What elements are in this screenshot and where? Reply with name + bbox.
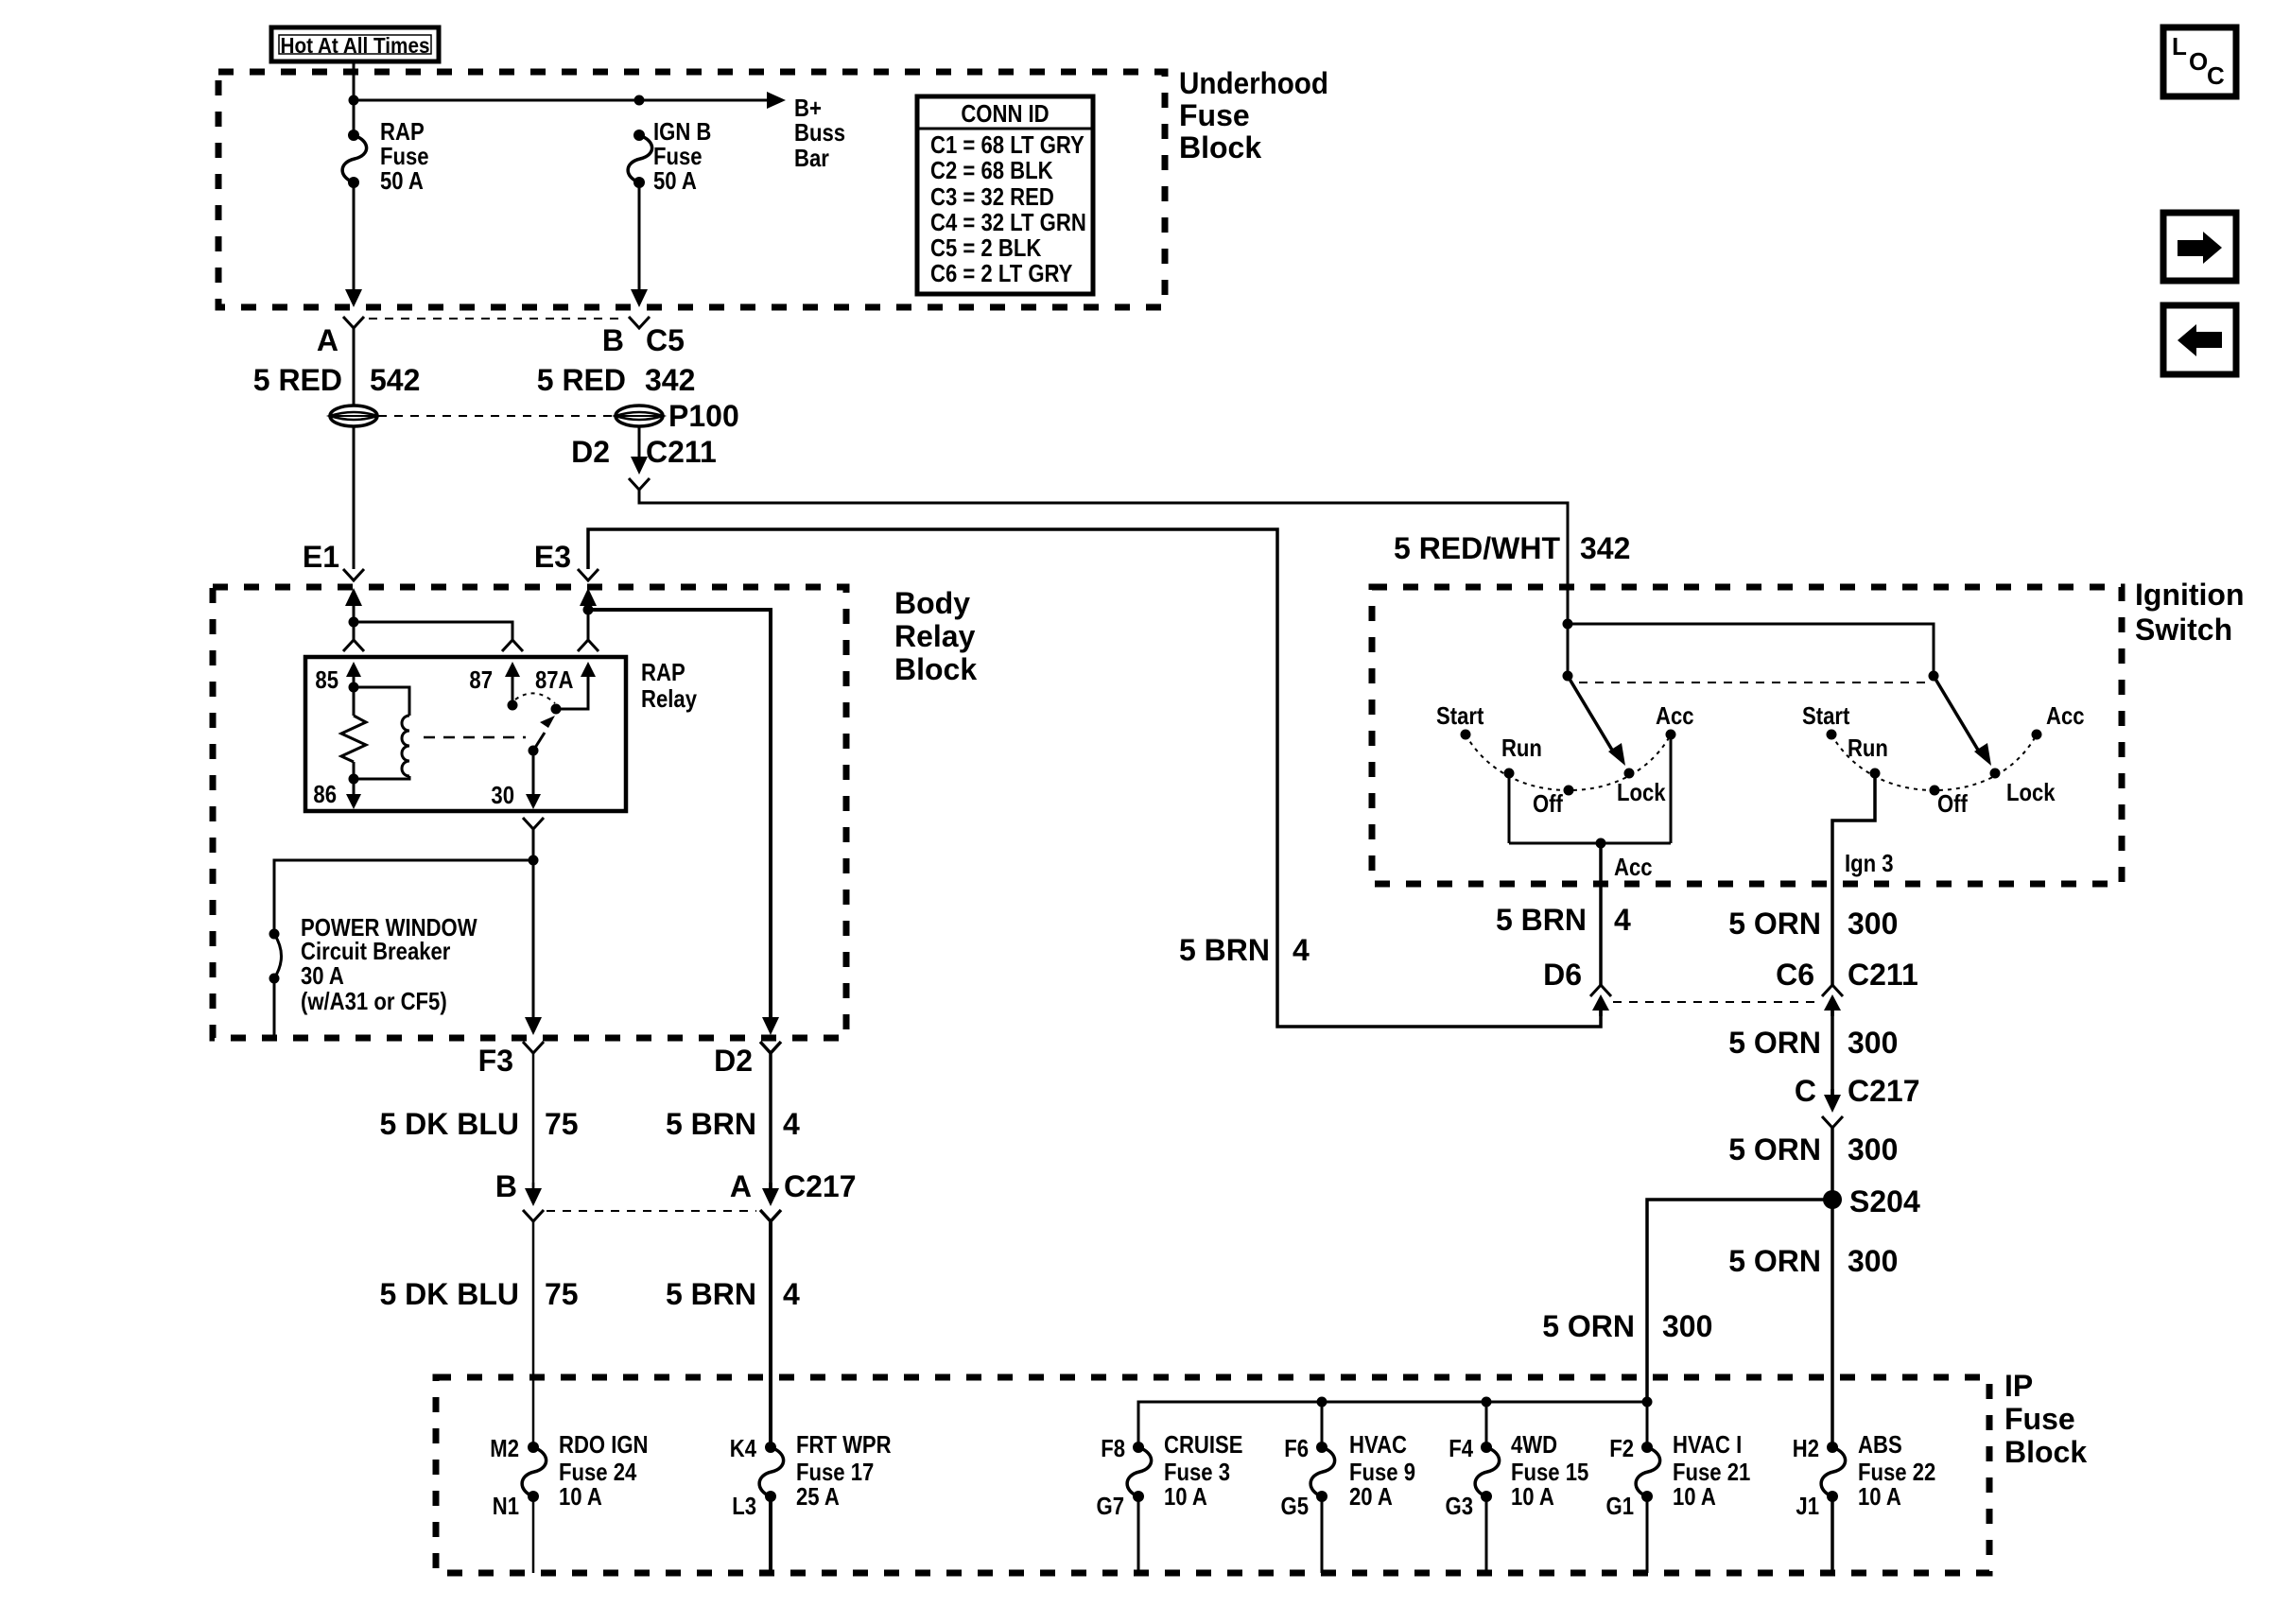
label pin B [602,323,624,357]
in-line connector C211 pin C6 (chevron + arrow up) [1822,985,1843,1016]
wire ABS fuse to block bottom [1831,1496,1834,1573]
wire left Acc to collector [1670,734,1673,843]
node bus at HVAC I fuse [1642,1397,1653,1408]
svg-text:Off: Off [1533,789,1563,818]
arrow to B+ buss bar [767,92,786,109]
label S204 [1849,1184,1920,1218]
arrow relay pin 30 [526,788,541,809]
label F4 [1449,1434,1473,1462]
svg-text:C217: C217 [784,1169,857,1203]
svg-text:Run: Run [1501,734,1542,762]
label G1 [1606,1492,1635,1520]
svg-text:87A: 87A [535,665,574,694]
wire CRUISE fuse to block bottom [1137,1496,1140,1573]
junction node at (676,106) [634,95,645,106]
wire FRT WPR fuse to block bottom [769,1496,772,1573]
arrow E3 into block [580,588,597,612]
svg-text:85: 85 [315,665,338,694]
svg-text:Acc: Acc [2046,701,2085,730]
block label 'IP Fuse Block' [2004,1369,2087,1469]
connector pin A chevron [343,317,364,328]
label ABS Fuse 22 10 A [1858,1430,1935,1511]
label N1 [493,1492,519,1520]
dashed arc 87 to 87A [515,693,555,703]
svg-text:5 ORN: 5 ORN [1728,1132,1821,1166]
svg-text:75: 75 [545,1277,579,1311]
svg-text:30 A: 30 A [301,961,344,990]
svg-text:N1: N1 [493,1492,519,1520]
label P100 [668,399,739,433]
node relay common 30 [529,746,539,756]
svg-text:4: 4 [1293,933,1310,967]
wire collector [1509,842,1671,845]
svg-text:5 RED/WHT: 5 RED/WHT [1394,531,1560,565]
label relay pin 86 [313,780,337,808]
in-line connector C211 pin D6 (chevron + arrow up) [1590,985,1611,1016]
coil in relay [354,687,409,779]
wire B grommet to C211 connector [638,425,641,458]
svg-text:FRT WPR: FRT WPR [796,1430,892,1459]
block label 'Body Relay Block' [894,586,977,686]
label E3 [534,540,571,574]
node relay coil top [349,682,359,693]
svg-text:Hot At All Times: Hot At All Times [281,33,430,58]
wire B+ feed horizontal [354,99,769,102]
node relay pin 87A contact [551,704,562,715]
node bus at HVAC fuse [1317,1397,1327,1408]
svg-text:D2: D2 [571,435,610,469]
wire label 5 BRN 4 at Acc [1496,903,1631,937]
svg-text:342: 342 [1580,531,1630,565]
chevron below body block F3 [523,1042,544,1053]
arrow out of underhood block at A [345,284,362,307]
svg-text:20 A: 20 A [1349,1482,1393,1511]
label connector C211 at C6 [1848,958,1918,992]
wire label 5 DK BLU 75 lower [379,1277,578,1311]
svg-text:IP: IP [2004,1369,2033,1403]
connector C217 mating dashed line [547,1210,756,1212]
right switch lever [1934,676,1991,766]
node relay pin 87 [508,700,518,711]
right switch position arc [1831,734,2037,790]
svg-text:S204: S204 [1849,1184,1920,1218]
svg-text:Block: Block [2004,1435,2087,1469]
wire label 5 BRN 4 lower [666,1277,800,1311]
svg-text:4: 4 [1614,903,1631,937]
svg-text:A: A [317,323,338,357]
wire E3 junction to relay pin 87A [587,610,590,640]
svg-text:Lock: Lock [1617,778,1666,806]
block label 'Ignition Switch' [2135,578,2245,647]
label M2 [490,1434,519,1462]
arrow E1 into block [345,588,362,612]
connector E3 chevron [578,569,599,580]
svg-text:5 BRN: 5 BRN [666,1277,756,1311]
right switch position Acc [2032,701,2085,740]
label RDO IGN Fuse 24 10 A [559,1430,649,1511]
node relay coil bottom [349,774,359,785]
svg-text:F2: F2 [1609,1434,1634,1462]
svg-text:4WD: 4WD [1511,1430,1557,1459]
label CRUISE Fuse 3 10 A [1164,1430,1243,1511]
grommet P100 left [330,406,377,426]
svg-text:Block: Block [894,652,977,686]
label pin C6 [1776,958,1814,992]
svg-text:Ign 3: Ign 3 [1845,849,1894,877]
ignition switch dashed border [1372,587,2122,884]
svg-text:86: 86 [313,780,337,808]
left switch lever [1568,676,1625,766]
wire A to grommet [353,328,356,406]
svg-text:RDO IGN: RDO IGN [559,1430,649,1459]
node left wiper pivot [1563,671,1573,682]
svg-text:50 A: 50 A [653,166,697,195]
label RAP Relay [641,658,697,713]
svg-text:CRUISE: CRUISE [1164,1430,1243,1459]
label pin A [317,323,338,357]
svg-text:5 ORN: 5 ORN [1728,1026,1821,1060]
node ignition feed split [1563,619,1573,630]
wire E3 external to D6 link [588,529,1601,1027]
svg-text:342: 342 [645,363,695,397]
svg-text:Relay: Relay [641,684,697,713]
wire A to FRT WPR fuse [769,1221,772,1447]
svg-text:C: C [1795,1074,1816,1108]
svg-text:G7: G7 [1097,1492,1125,1520]
label pin A at C217 [730,1169,752,1203]
svg-text:50 A: 50 A [380,166,424,195]
svg-text:300: 300 [1848,1244,1898,1278]
label HVAC I Fuse 21 10 A [1673,1430,1750,1511]
wire IGN B fuse to block edge [638,182,641,289]
svg-text:P100: P100 [668,399,739,433]
arrow relay pin 86 [346,788,361,809]
svg-text:G5: G5 [1281,1492,1310,1520]
wire E3 pin to junction [587,610,590,612]
label relay pin 87A [535,665,574,694]
svg-text:10 A: 10 A [1673,1482,1716,1511]
svg-text:C6 = 2 LT GRY: C6 = 2 LT GRY [930,259,1072,287]
left switch position Acc [1656,701,1694,740]
node bus at 4WD fuse [1482,1397,1492,1408]
label F3 [478,1044,513,1078]
relay pin 85 arrow [346,662,361,682]
svg-text:Off: Off [1937,789,1968,818]
label F6 [1284,1434,1309,1462]
svg-text:5 DK BLU: 5 DK BLU [379,1107,519,1141]
svg-text:RAP: RAP [641,658,685,686]
relay pin 87 arrow [505,662,520,682]
svg-text:H2: H2 [1793,1434,1819,1462]
wire E1 junction to relay pin 85 [353,622,356,640]
block label 'Underhood Fuse Block' [1179,66,1328,164]
label K4 [730,1434,757,1462]
left switch position arc [1466,734,1671,790]
svg-text:C: C [2207,61,2225,90]
svg-text:5 DK BLU: 5 DK BLU [379,1277,519,1311]
wire label 5 BRN 4 on link wire [1179,933,1310,967]
fuse RAP Fuse 50 A [342,130,367,188]
wire D2 to ignition switch feed [639,490,1568,590]
label D2 exit [714,1044,753,1078]
fuse HVAC I Fuse 21 10 A [1636,1442,1660,1502]
svg-text:Underhood: Underhood [1179,66,1328,100]
svg-text:A: A [730,1169,752,1203]
left switch position Start [1436,701,1484,740]
in-line connector C217 pin C (arrow + chevron) [1822,1089,1843,1128]
svg-text:75: 75 [545,1107,579,1141]
svg-text:F8: F8 [1101,1434,1125,1462]
svg-text:D2: D2 [714,1044,753,1078]
label relay pin 87 [469,665,493,694]
wire pin 30 [532,751,535,794]
label G7 [1097,1492,1125,1520]
svg-text:Buss: Buss [794,118,845,147]
label F8 [1101,1434,1125,1462]
right switch position Off [1930,786,1969,819]
relay pin 87A arrow [581,662,596,682]
svg-text:K4: K4 [730,1434,757,1462]
svg-text:87: 87 [469,665,493,694]
relay pin 87 chevron [502,640,523,651]
previous page arrow icon [2163,305,2236,374]
svg-text:E3: E3 [534,540,571,574]
resistor in relay [341,687,366,779]
label F2 [1609,1434,1634,1462]
label L3 [732,1492,756,1520]
wire label 5 ORN 300 above C217 [1728,1026,1898,1060]
relay switch lever [533,716,555,751]
label J1 [1796,1492,1819,1520]
dashed wiper link [1579,682,1925,683]
label RAP Fuse 50 A [380,117,429,195]
connector E1 chevron [343,569,364,580]
wire branch to circuit breaker [274,860,533,929]
svg-text:C1 = 68 LT GRY: C1 = 68 LT GRY [930,130,1084,159]
wire left Run to collector [1508,773,1511,843]
svg-text:F3: F3 [478,1044,513,1078]
next page arrow icon [2163,213,2236,281]
connector C211 lower mating dashed line [1613,1001,1819,1003]
svg-text:10 A: 10 A [1511,1482,1554,1511]
wire RAP fuse to block edge [353,182,356,289]
svg-text:M2: M2 [490,1434,519,1462]
label pin D6 [1543,958,1582,992]
wire E1 pin to junction [353,612,356,622]
label pin B at C217 [495,1169,517,1203]
wire HVAC I fuse to block bottom [1646,1496,1649,1573]
underhood fuse block dashed border [218,72,1165,307]
relay pin 87A chevron [578,640,599,651]
svg-text:300: 300 [1848,1132,1898,1166]
arrow out of body block at D2 [762,1011,779,1035]
node E1 branch [349,617,359,628]
svg-text:30: 30 [491,781,514,809]
grommet dashed link [378,415,615,417]
svg-text:5 RED: 5 RED [537,363,626,397]
svg-text:ABS: ABS [1858,1430,1902,1459]
svg-text:Acc: Acc [1614,853,1653,881]
wire RDO IGN fuse to block bottom [532,1496,535,1573]
svg-text:C6: C6 [1776,958,1814,992]
label Acc output [1614,853,1653,881]
label connector C217 right [1848,1074,1920,1108]
svg-text:5 ORN: 5 ORN [1728,1244,1821,1278]
fuse IGN B Fuse 50 A [628,130,652,188]
svg-text:Ignition: Ignition [2135,578,2245,612]
grommet P100 right [616,406,663,426]
svg-text:D6: D6 [1543,958,1582,992]
svg-text:C5 = 2 BLK: C5 = 2 BLK [930,233,1041,262]
junction node at (374,106) [349,95,359,106]
svg-text:F6: F6 [1284,1434,1309,1462]
svg-text:(w/A31 or CF5): (w/A31 or CF5) [301,987,447,1015]
svg-text:C211: C211 [646,435,717,469]
svg-text:300: 300 [1848,907,1898,941]
fuse 4WD Fuse 15 10 A [1475,1442,1500,1502]
svg-text:Start: Start [1436,701,1484,730]
wire Acc to D6 [1599,887,1603,987]
svg-text:25 A: 25 A [796,1482,840,1511]
IP bus wire [1138,1402,1647,1447]
svg-text:300: 300 [1662,1309,1712,1343]
svg-text:J1: J1 [1796,1492,1819,1520]
wire breaker to block edge [273,978,276,1035]
label G3 [1446,1492,1474,1520]
right switch position Lock [1990,769,2056,807]
fuse RDO IGN Fuse 24 10 A [522,1442,547,1502]
fuse ABS Fuse 22 10 A [1821,1442,1846,1502]
svg-text:HVAC I: HVAC I [1673,1430,1742,1459]
CONN ID table [917,96,1093,294]
label pin C5 [646,323,685,357]
wire pin 86 [353,779,356,794]
wire bus drop to F2 [1646,1402,1649,1447]
label pin C at C217 [1795,1074,1816,1108]
svg-text:5 BRN: 5 BRN [1496,903,1587,937]
wire HVAC fuse to block bottom [1321,1496,1324,1573]
svg-text:B: B [495,1169,517,1203]
label Ign 3 output [1845,849,1894,877]
wire 87A contact to pin [556,677,588,709]
svg-text:Fuse: Fuse [2004,1402,2075,1436]
label pin D2 [571,435,610,469]
wire F3 to C217 [532,1053,535,1189]
wire label 5 RED 542 [253,363,421,397]
wire label 5 RED 342 [537,363,696,397]
label connector C217 [784,1169,857,1203]
svg-text:C3 = 32 RED: C3 = 32 RED [930,182,1054,211]
wire feed to right wiper [1568,624,1934,676]
wire C6 to C217 [1831,1011,1834,1098]
svg-text:5 BRN: 5 BRN [666,1107,756,1141]
wire bus drop to F6 [1321,1402,1324,1447]
svg-text:Switch: Switch [2135,613,2232,647]
label HVAC Fuse 9 20 A [1349,1430,1415,1511]
connector pin B chevron [629,317,650,328]
svg-text:G3: G3 [1446,1492,1474,1520]
wire B to RDO IGN fuse [532,1221,535,1447]
label connector C211 [646,435,717,469]
svg-text:C217: C217 [1848,1074,1920,1108]
chevron below body block D2 [760,1042,781,1053]
wire bus drop to F4 [1485,1402,1488,1447]
arrow out of body block at F3 [525,1011,542,1035]
node E3 branch [583,605,594,615]
wire branch to D2 exit [588,610,771,1020]
svg-text:Relay: Relay [894,619,976,653]
svg-text:L: L [2172,32,2187,60]
svg-text:C211: C211 [1848,958,1918,992]
wire label 5 DK BLU 75 [379,1107,578,1141]
svg-text:O: O [2189,47,2208,76]
wire right Run jog to Ign 3 output [1832,773,1875,887]
label B+ Buss Bar [794,94,845,172]
fuse FRT WPR Fuse 17 25 A [759,1442,784,1502]
wire label 5 RED/WHT 342 [1394,531,1630,565]
chevron below relay pin 30 [523,818,544,829]
svg-text:L3: L3 [732,1492,756,1520]
svg-text:5 RED: 5 RED [253,363,342,397]
wire from Hot At All Times down to RAP fuse (x=374) [353,60,356,135]
svg-text:C2 = 68 BLK: C2 = 68 BLK [930,156,1053,184]
wire label 5 ORN 300 on branch [1542,1309,1712,1343]
svg-text:Fuse: Fuse [1179,98,1250,132]
node breaker branch [529,855,539,866]
label H2 [1793,1434,1819,1462]
svg-text:Body: Body [894,586,970,620]
label IGN B Fuse 50 A [653,117,711,195]
svg-text:4: 4 [783,1107,800,1141]
wire pin 30 down to F3 exit [532,829,535,1020]
svg-text:B: B [602,323,624,357]
fuse HVAC Fuse 9 20 A [1310,1442,1335,1502]
label E1 [303,540,339,574]
relay RAP box [305,657,626,811]
svg-text:300: 300 [1848,1026,1898,1060]
wire label 5 ORN 300 above S204 [1728,1132,1898,1166]
svg-text:G1: G1 [1606,1492,1635,1520]
in-line connector C217 pin A (arrow + chevron) [760,1183,781,1221]
svg-text:Acc: Acc [1656,701,1694,730]
label POWER WINDOW Circuit Breaker 30 A [301,913,477,1015]
left switch position Off [1533,786,1574,819]
node right wiper pivot [1929,671,1939,682]
svg-text:Bar: Bar [794,144,829,172]
wire label 5 ORN 300 to ABS [1728,1244,1898,1278]
svg-text:Block: Block [1179,130,1261,164]
wire pin 85 to coil node [353,677,356,687]
power source tag 'Hot At All Times' [271,27,439,61]
left switch position Run [1501,734,1542,779]
wire branch to relay pin 87 [354,622,512,640]
label relay pin 85 [315,665,338,694]
svg-text:542: 542 [370,363,420,397]
arrow out of underhood block at B [631,284,648,307]
wire C217 to S204 [1831,1128,1834,1200]
wire S204 to ABS fuse [1831,1200,1834,1447]
body relay block dashed border [213,587,846,1038]
svg-text:10 A: 10 A [1858,1482,1901,1511]
left switch position Lock [1617,769,1666,807]
wire Ign3 to C6 [1831,887,1834,987]
svg-text:C5: C5 [646,323,685,357]
node Acc output [1596,838,1606,849]
right switch position Start [1802,701,1850,740]
svg-text:5 BRN: 5 BRN [1179,933,1270,967]
wire feed to left wiper [1567,590,1570,676]
wire A grommet to E1 [353,425,356,569]
